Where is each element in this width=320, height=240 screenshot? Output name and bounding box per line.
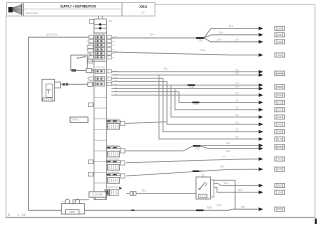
svg-text:J - 44: J - 44 xyxy=(17,213,26,217)
svg-text:1234: 1234 xyxy=(198,171,204,173)
svg-text:30 A: 30 A xyxy=(150,34,155,37)
svg-text:MH: MH xyxy=(241,207,245,209)
svg-text:5 A: 5 A xyxy=(235,114,239,117)
svg-text:1247: 1247 xyxy=(277,115,283,119)
svg-text:1738: 1738 xyxy=(194,149,200,151)
svg-text:1737: 1737 xyxy=(193,104,199,106)
svg-text:5 A: 5 A xyxy=(235,107,239,110)
svg-text:5 A: 5 A xyxy=(235,38,239,41)
svg-text:5 A: 5 A xyxy=(235,99,239,102)
svg-text:25 A: 25 A xyxy=(226,150,231,153)
svg-text:5 A: 5 A xyxy=(235,121,239,124)
svg-text:5 A: 5 A xyxy=(235,86,239,89)
svg-text:5 A: 5 A xyxy=(222,155,226,158)
svg-text:5 A: 5 A xyxy=(235,82,239,85)
svg-text:BP17 30 A: BP17 30 A xyxy=(47,34,58,37)
svg-text:1736: 1736 xyxy=(189,87,195,89)
svg-text:2500: 2500 xyxy=(277,207,283,211)
svg-text:5 A: 5 A xyxy=(235,69,239,72)
svg-text:15 A: 15 A xyxy=(220,166,225,169)
svg-text:40A: 40A xyxy=(108,20,113,23)
svg-text:60 A: 60 A xyxy=(224,182,229,185)
svg-text:5 A: 5 A xyxy=(235,92,239,95)
svg-text:R107: R107 xyxy=(277,108,284,112)
svg-text:Schematic: Schematic xyxy=(26,11,39,15)
svg-text:60 A: 60 A xyxy=(217,204,222,207)
svg-text:40 A: 40 A xyxy=(238,189,243,192)
svg-text:10 A: 10 A xyxy=(217,38,222,41)
svg-text:1094: 1094 xyxy=(277,93,283,97)
svg-text:5 A: 5 A xyxy=(235,136,239,139)
svg-text:1350: 1350 xyxy=(277,26,283,30)
svg-text:5 A: 5 A xyxy=(235,129,239,132)
svg-text:1352: 1352 xyxy=(277,40,283,44)
svg-text:154: 154 xyxy=(278,190,283,194)
svg-text:46 C: 46 C xyxy=(164,69,169,71)
svg-text:16 A: 16 A xyxy=(142,189,147,192)
svg-text:260: 260 xyxy=(278,53,283,57)
svg-text:1503: 1503 xyxy=(277,184,283,188)
svg-text:40 A: 40 A xyxy=(229,25,234,28)
svg-text:+: + xyxy=(62,200,64,204)
svg-text:UCH 645: UCH 645 xyxy=(92,194,103,197)
svg-text:16 A: 16 A xyxy=(219,31,224,34)
svg-text:1175: 1175 xyxy=(277,137,283,141)
svg-text:CT0875: CT0875 xyxy=(70,118,80,121)
svg-text:1083: 1083 xyxy=(277,130,283,134)
svg-text:SUPPLY + DISTRIBUTION: SUPPLY + DISTRIBUTION xyxy=(60,5,96,9)
svg-text:1250: 1250 xyxy=(69,210,75,214)
svg-text:5 A: 5 A xyxy=(235,72,239,75)
svg-text:1750: 1750 xyxy=(197,40,203,42)
svg-text:MH5: MH5 xyxy=(207,208,213,210)
svg-text:645: 645 xyxy=(278,122,283,126)
svg-text:1271: 1271 xyxy=(277,167,283,171)
svg-text:1351: 1351 xyxy=(277,33,283,37)
svg-text:1016: 1016 xyxy=(277,100,283,104)
svg-text:777: 777 xyxy=(278,157,283,161)
svg-text:25 A: 25 A xyxy=(226,142,231,145)
svg-text:X64: X64 xyxy=(139,4,147,9)
svg-text:GC: GC xyxy=(141,10,145,14)
svg-text:60 A: 60 A xyxy=(201,49,206,52)
